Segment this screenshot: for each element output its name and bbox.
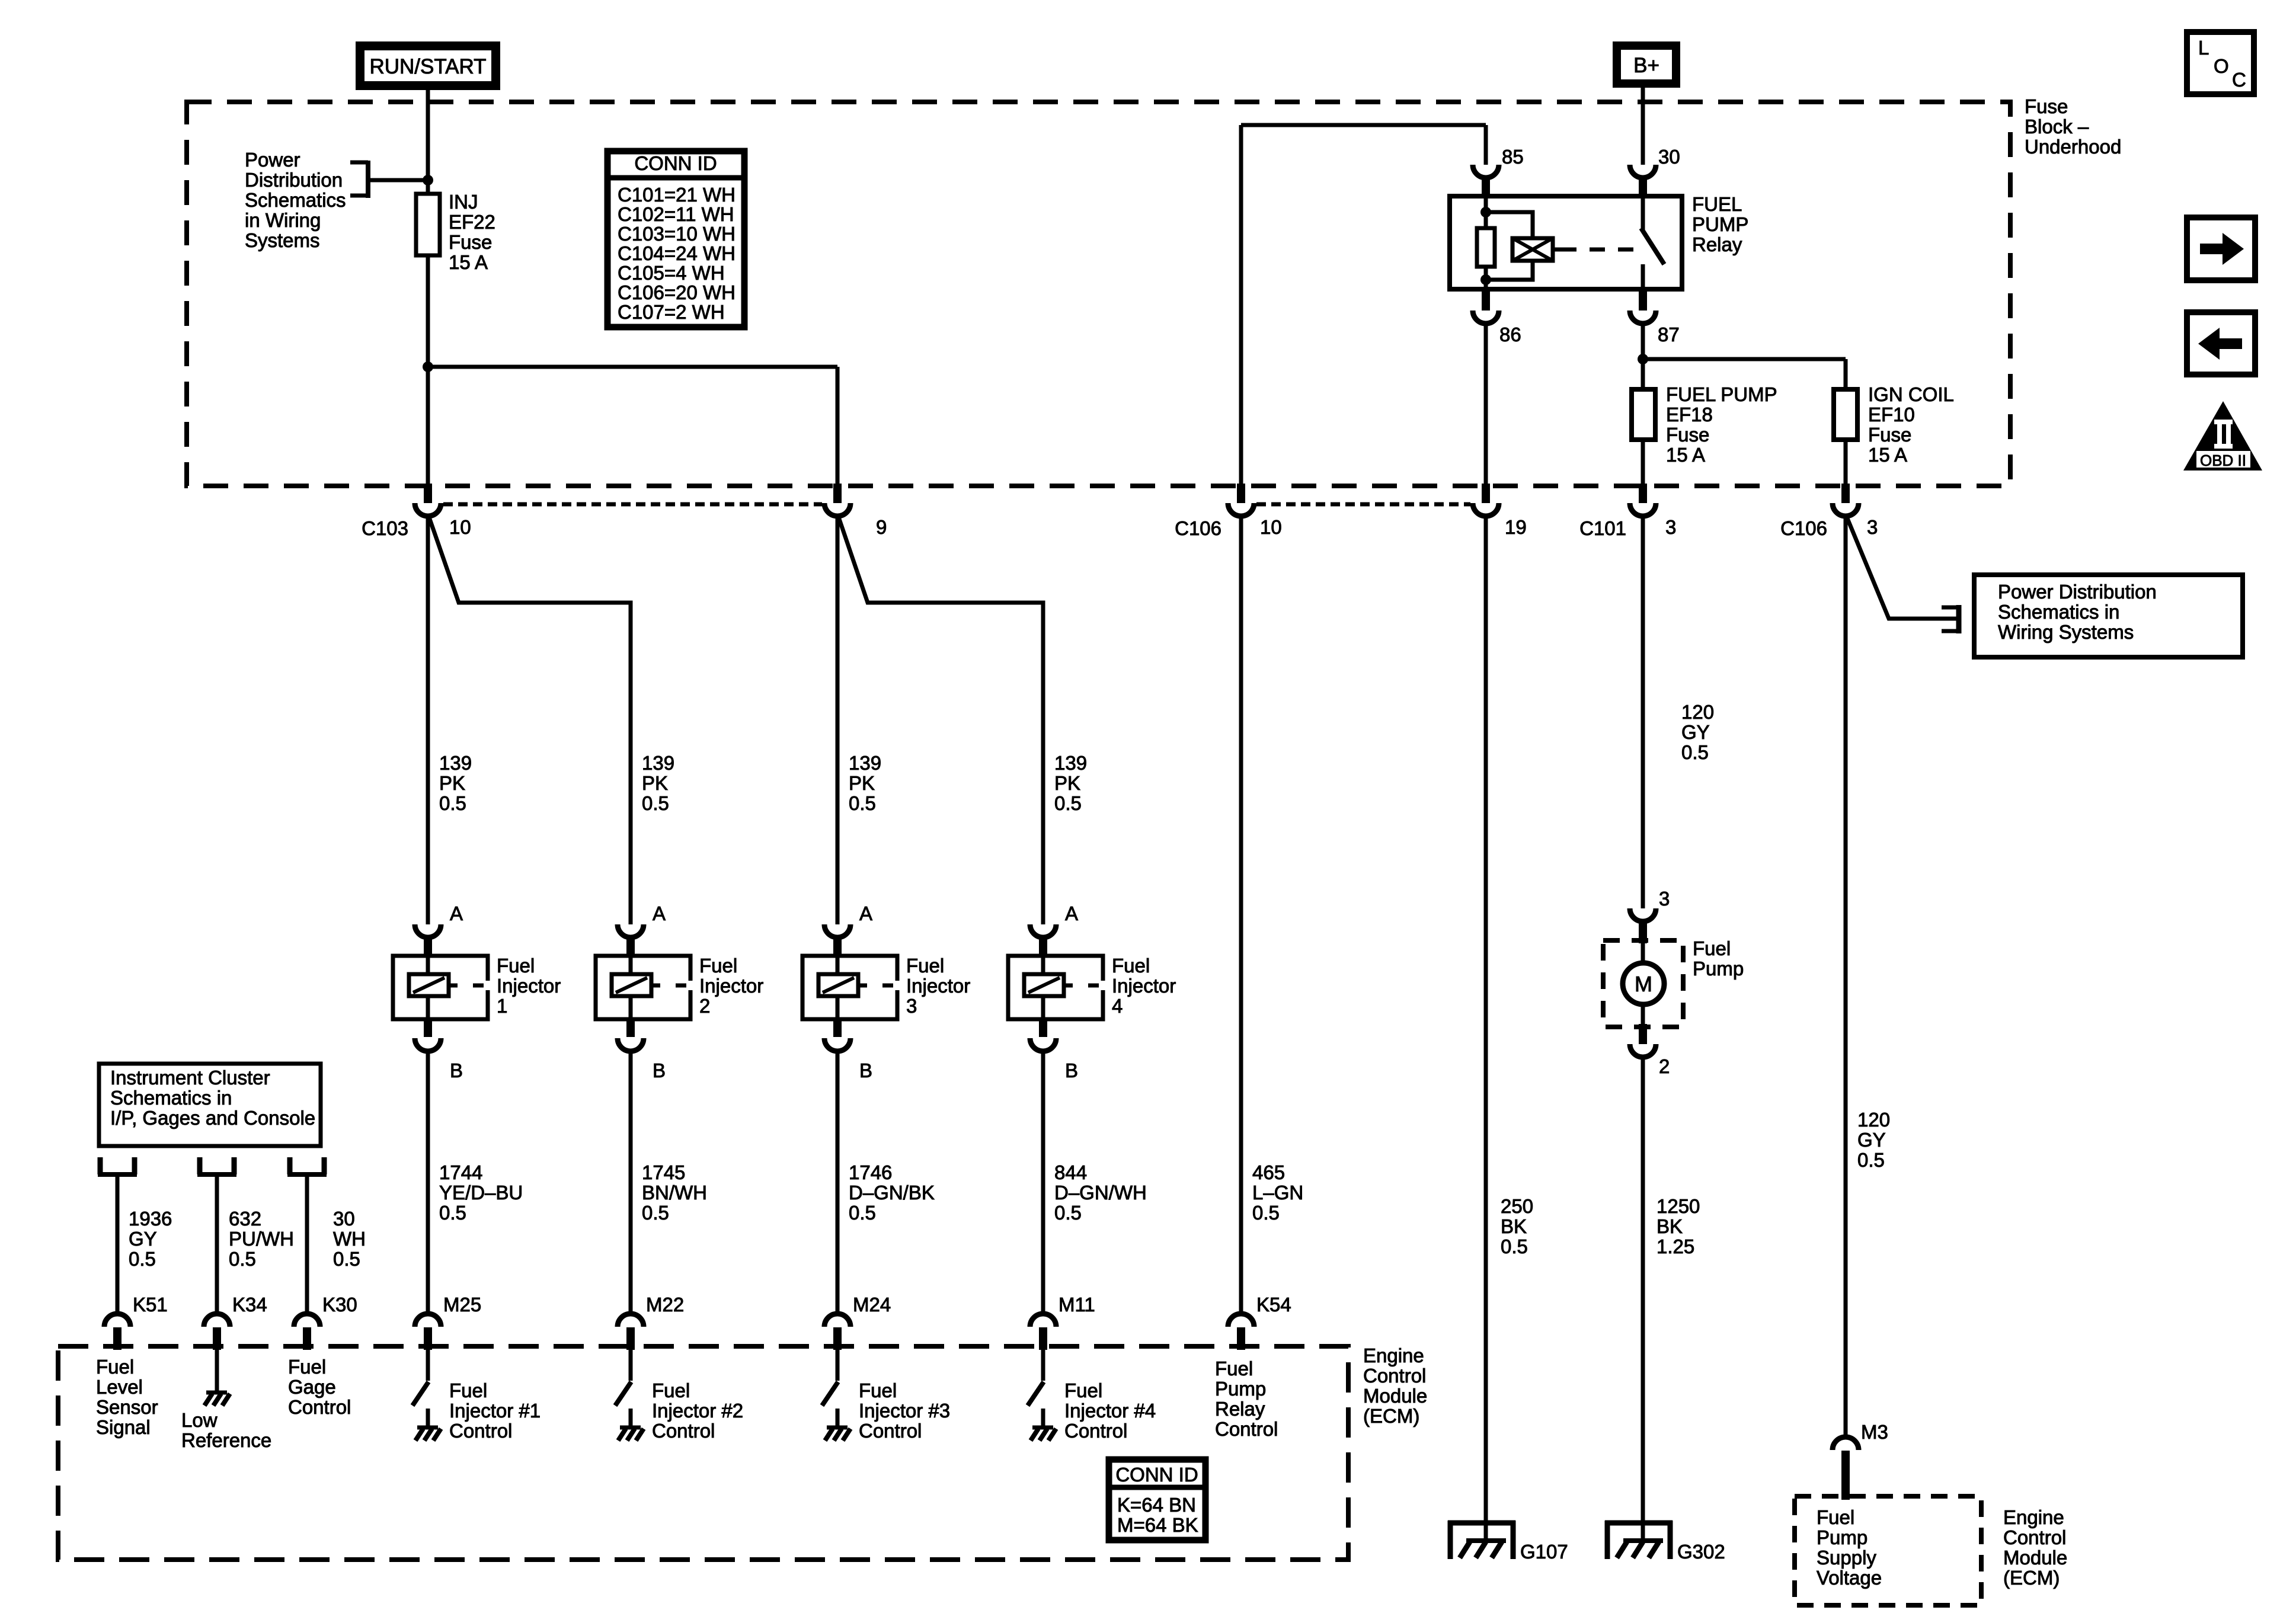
ground G302 bbox=[1605, 1521, 1673, 1526]
fuel injector 4 (solenoid box) bbox=[1008, 956, 1103, 1019]
wire pin 86 to C106-19 bbox=[1484, 323, 1488, 485]
svg-text:BN/WH: BN/WH bbox=[642, 1182, 707, 1204]
instrument cluster output bracket bbox=[197, 1157, 203, 1174]
wire 250 BK to G107 bbox=[1484, 516, 1488, 1538]
connector K34 at ECM bbox=[204, 1314, 230, 1327]
svg-text:BK: BK bbox=[1657, 1215, 1683, 1237]
svg-text:1745: 1745 bbox=[642, 1161, 685, 1183]
svg-text:Injector #2: Injector #2 bbox=[652, 1400, 743, 1422]
svg-text:30: 30 bbox=[333, 1208, 355, 1230]
svg-text:Block –: Block – bbox=[2025, 116, 2089, 137]
svg-text:CONN ID: CONN ID bbox=[634, 152, 717, 174]
svg-text:Control: Control bbox=[859, 1420, 922, 1442]
svg-text:0.5: 0.5 bbox=[1501, 1235, 1528, 1257]
svg-text:0.5: 0.5 bbox=[333, 1248, 360, 1270]
OBD II icon bbox=[2183, 401, 2262, 470]
svg-text:K34: K34 bbox=[232, 1294, 267, 1315]
svg-text:Schematics: Schematics bbox=[245, 189, 346, 211]
wire 139 PK to injector 3 bbox=[836, 516, 840, 924]
svg-text:(ECM): (ECM) bbox=[1363, 1405, 1419, 1427]
connector C103 pin 9 bbox=[833, 484, 842, 503]
svg-text:IGN COIL: IGN COIL bbox=[1868, 383, 1954, 405]
connector K30 at ECM bbox=[294, 1314, 320, 1327]
back arrow icon bbox=[2187, 312, 2255, 375]
relay pin 87 connector bbox=[1639, 289, 1647, 311]
svg-text:Module: Module bbox=[1363, 1385, 1427, 1407]
LOC icon bbox=[2187, 32, 2254, 94]
svg-text:Supply: Supply bbox=[1817, 1547, 1876, 1569]
svg-text:A: A bbox=[1065, 902, 1078, 924]
svg-text:139: 139 bbox=[439, 752, 472, 774]
svg-text:Fuel: Fuel bbox=[859, 1379, 897, 1401]
connector pin A of fuel injector 1 bbox=[415, 924, 441, 937]
wire pin 87 down bbox=[1641, 323, 1645, 485]
box Instrument Cluster Schematics bbox=[99, 1064, 321, 1146]
connector M24 at ECM bbox=[824, 1314, 850, 1327]
svg-text:Injector: Injector bbox=[699, 975, 763, 997]
fuel injector #2 control driver (switch to ground) in ECM bbox=[629, 1350, 633, 1381]
svg-text:10: 10 bbox=[449, 516, 471, 538]
svg-text:B: B bbox=[1065, 1060, 1078, 1081]
wire injector control to ECM bbox=[426, 1051, 430, 1314]
wire branch to injector 4 bbox=[838, 516, 1043, 924]
svg-text:PUMP: PUMP bbox=[1692, 213, 1748, 235]
forward arrow icon bbox=[2187, 217, 2255, 280]
svg-text:Schematics in: Schematics in bbox=[1998, 601, 2119, 623]
svg-text:YE/D–BU: YE/D–BU bbox=[439, 1182, 523, 1204]
relay coil (box with X) bbox=[1486, 212, 1533, 238]
svg-text:M22: M22 bbox=[646, 1294, 684, 1315]
svg-text:M24: M24 bbox=[853, 1294, 891, 1315]
power tag B+ bbox=[1613, 41, 1680, 88]
wire 465 L-GN relay control bbox=[1239, 516, 1243, 1314]
wire branch to injector 2 bbox=[428, 516, 631, 924]
svg-text:Fuel: Fuel bbox=[1215, 1358, 1253, 1379]
svg-text:0.5: 0.5 bbox=[849, 792, 876, 814]
svg-text:465: 465 bbox=[1252, 1161, 1285, 1183]
svg-text:Pump: Pump bbox=[1215, 1378, 1266, 1400]
fuel pump pin 2 connector bbox=[1639, 1024, 1647, 1044]
svg-text:Signal: Signal bbox=[96, 1416, 151, 1438]
svg-text:Fuel: Fuel bbox=[288, 1356, 326, 1378]
svg-text:15 A: 15 A bbox=[449, 251, 488, 273]
svg-text:3: 3 bbox=[1867, 516, 1878, 538]
connector C106 pin 3 bbox=[1841, 484, 1850, 503]
svg-text:1.25: 1.25 bbox=[1657, 1235, 1694, 1257]
svg-text:Control: Control bbox=[2003, 1526, 2066, 1548]
connector C106 pin 10 bbox=[1237, 484, 1245, 503]
svg-text:3: 3 bbox=[1659, 888, 1670, 910]
svg-text:Engine: Engine bbox=[1363, 1345, 1424, 1366]
svg-text:in Wiring: in Wiring bbox=[245, 209, 321, 231]
svg-text:Voltage: Voltage bbox=[1817, 1567, 1882, 1589]
svg-text:PK: PK bbox=[1054, 772, 1080, 794]
svg-text:Injector: Injector bbox=[1112, 975, 1176, 997]
svg-text:3: 3 bbox=[906, 995, 917, 1017]
svg-text:Fuel: Fuel bbox=[1817, 1506, 1854, 1528]
svg-text:0.5: 0.5 bbox=[1054, 792, 1082, 814]
svg-text:C107=2 WH: C107=2 WH bbox=[618, 301, 725, 323]
svg-text:B+: B+ bbox=[1633, 54, 1659, 77]
connector pin A of fuel injector 2 bbox=[618, 924, 644, 937]
svg-text:K54: K54 bbox=[1256, 1294, 1291, 1315]
svg-text:Fuse: Fuse bbox=[449, 231, 492, 253]
svg-text:C: C bbox=[2232, 69, 2246, 91]
dotted tie C106 10-19 bbox=[1256, 502, 1470, 507]
CONN ID table (ECM) bbox=[1109, 1459, 1205, 1540]
wire tap to bracket bbox=[370, 178, 428, 183]
svg-text:GY: GY bbox=[1681, 721, 1710, 743]
svg-text:C101: C101 bbox=[1579, 517, 1626, 539]
svg-text:Gage: Gage bbox=[288, 1376, 336, 1398]
connector pin A of fuel injector 4 bbox=[1030, 924, 1056, 937]
connector pin B of fuel injector 1 bbox=[424, 1019, 432, 1037]
svg-text:139: 139 bbox=[1054, 752, 1087, 774]
connector K51 at ECM bbox=[104, 1314, 130, 1327]
svg-text:G302: G302 bbox=[1677, 1541, 1725, 1563]
svg-text:L: L bbox=[2198, 37, 2209, 59]
svg-text:15 A: 15 A bbox=[1666, 444, 1705, 466]
relay pin 30 connector bbox=[1630, 165, 1656, 178]
svg-text:0.5: 0.5 bbox=[1857, 1149, 1885, 1171]
ECM fuel pump supply voltage (dashed box) bbox=[1795, 1496, 1981, 1605]
connector M25 at ECM bbox=[415, 1314, 441, 1327]
connector pin B of fuel injector 2 bbox=[626, 1019, 635, 1037]
svg-text:Relay: Relay bbox=[1692, 233, 1742, 255]
svg-text:1: 1 bbox=[497, 995, 507, 1017]
svg-text:Schematics in: Schematics in bbox=[110, 1087, 232, 1109]
fuel injector 3 (solenoid box) bbox=[802, 956, 897, 1019]
wire injector control to ECM bbox=[1041, 1051, 1045, 1314]
wire branch to EF10 bbox=[1643, 357, 1846, 361]
svg-text:Fuel: Fuel bbox=[1112, 955, 1150, 977]
svg-text:RUN/START: RUN/START bbox=[369, 55, 486, 78]
wire 120 GY C101-3 to fuel pump bbox=[1641, 516, 1645, 908]
svg-text:C101=21 WH: C101=21 WH bbox=[618, 184, 736, 206]
fuse FUEL PUMP EF18 15A bbox=[1632, 389, 1655, 440]
svg-text:2: 2 bbox=[699, 995, 710, 1017]
svg-text:Pump: Pump bbox=[1817, 1526, 1868, 1548]
svg-text:O: O bbox=[2214, 55, 2229, 77]
wire from instrument cluster bbox=[215, 1177, 219, 1314]
node: branch to IGN COIL fuse bbox=[1638, 354, 1648, 364]
fuse IGN COIL EF10 15A bbox=[1834, 389, 1857, 440]
svg-text:Power Distribution: Power Distribution bbox=[1998, 581, 2157, 603]
svg-text:K51: K51 bbox=[133, 1294, 168, 1315]
wire RUN/START feed bbox=[426, 90, 430, 196]
svg-text:FUEL: FUEL bbox=[1692, 193, 1742, 215]
svg-text:Fuel: Fuel bbox=[906, 955, 944, 977]
ECM low reference (ground) bbox=[215, 1350, 219, 1393]
svg-text:Injector #3: Injector #3 bbox=[859, 1400, 950, 1422]
svg-text:C106: C106 bbox=[1780, 517, 1827, 539]
fuel pump pin 3 connector bbox=[1630, 908, 1656, 921]
svg-text:M11: M11 bbox=[1059, 1294, 1095, 1315]
svg-text:1250: 1250 bbox=[1657, 1195, 1700, 1217]
svg-text:BK: BK bbox=[1501, 1215, 1527, 1237]
svg-text:15 A: 15 A bbox=[1868, 444, 1907, 466]
svg-text:M=64 BK: M=64 BK bbox=[1117, 1514, 1198, 1536]
svg-text:85: 85 bbox=[1502, 146, 1524, 168]
svg-text:Low: Low bbox=[181, 1409, 218, 1431]
svg-text:9: 9 bbox=[876, 516, 887, 538]
svg-text:Reference: Reference bbox=[181, 1429, 271, 1451]
svg-text:Fuel: Fuel bbox=[497, 955, 535, 977]
svg-text:0.5: 0.5 bbox=[439, 792, 466, 814]
power tag RUN/START bbox=[356, 41, 500, 90]
fuse INJ EF22 15A bbox=[426, 196, 430, 257]
svg-text:PK: PK bbox=[642, 772, 668, 794]
svg-text:Fuel: Fuel bbox=[1693, 937, 1731, 959]
bracket to Power Distribution Schematics bbox=[350, 161, 368, 165]
svg-text:844: 844 bbox=[1054, 1161, 1087, 1183]
svg-text:G107: G107 bbox=[1520, 1541, 1568, 1563]
fuel pump M1 (motor, dashed box) bbox=[1603, 940, 1683, 1027]
svg-text:139: 139 bbox=[642, 752, 674, 774]
box Power Distribution Schematics in Wiring Systems bbox=[1974, 575, 2243, 657]
svg-text:2: 2 bbox=[1659, 1055, 1670, 1077]
svg-text:GY: GY bbox=[1857, 1129, 1886, 1151]
relay pin 86 connector bbox=[1482, 289, 1490, 311]
wire 120 GY C106-3 to ECM M3 bbox=[1844, 516, 1848, 1438]
svg-text:GY: GY bbox=[129, 1228, 157, 1250]
svg-text:Engine: Engine bbox=[2003, 1506, 2064, 1528]
svg-text:Control: Control bbox=[652, 1420, 715, 1442]
node: branch to injectors 3/4 feed bbox=[423, 361, 433, 372]
svg-text:C106=20 WH: C106=20 WH bbox=[618, 281, 736, 303]
fuel injector #3 control driver (switch to ground) in ECM bbox=[836, 1350, 840, 1381]
svg-text:CONN ID: CONN ID bbox=[1115, 1464, 1198, 1486]
svg-text:Instrument Cluster: Instrument Cluster bbox=[110, 1067, 270, 1089]
svg-text:Level: Level bbox=[96, 1376, 143, 1398]
svg-text:Systems: Systems bbox=[245, 229, 320, 251]
svg-text:0.5: 0.5 bbox=[439, 1202, 466, 1224]
svg-text:EF10: EF10 bbox=[1868, 404, 1915, 425]
fuel injector #4 control driver (switch to ground) in ECM bbox=[1041, 1350, 1045, 1381]
svg-text:Underhood: Underhood bbox=[2025, 136, 2121, 158]
svg-text:C104=24 WH: C104=24 WH bbox=[618, 242, 736, 264]
svg-text:Fuel: Fuel bbox=[699, 955, 737, 977]
branch to Power Distribution bracket bbox=[1846, 516, 1957, 619]
svg-text:A: A bbox=[450, 902, 463, 924]
svg-text:D–GN/WH: D–GN/WH bbox=[1054, 1182, 1147, 1204]
svg-text:Control: Control bbox=[1064, 1420, 1127, 1442]
svg-text:19: 19 bbox=[1505, 516, 1527, 538]
svg-text:1746: 1746 bbox=[849, 1161, 892, 1183]
svg-text:0.5: 0.5 bbox=[1681, 741, 1709, 763]
svg-text:A: A bbox=[653, 902, 666, 924]
connector pin A of fuel injector 3 bbox=[824, 924, 850, 937]
svg-text:EF22: EF22 bbox=[449, 211, 495, 233]
relay pin 85 connector bbox=[1473, 165, 1499, 178]
svg-text:C105=4 WH: C105=4 WH bbox=[618, 262, 725, 284]
svg-text:0.5: 0.5 bbox=[642, 792, 669, 814]
connector M11 at ECM bbox=[1030, 1314, 1056, 1327]
svg-text:Fuse: Fuse bbox=[2025, 95, 2068, 117]
connector K54 at ECM bbox=[1228, 1314, 1254, 1327]
engine control module ECM (dashed box) bbox=[58, 1346, 1348, 1560]
connector C101 pin 3 bbox=[1639, 484, 1647, 503]
svg-text:120: 120 bbox=[1857, 1109, 1890, 1131]
svg-text:D–GN/BK: D–GN/BK bbox=[849, 1182, 935, 1204]
svg-text:Fuel: Fuel bbox=[449, 1379, 487, 1401]
svg-text:Control: Control bbox=[1363, 1365, 1426, 1387]
svg-text:Pump: Pump bbox=[1693, 958, 1744, 980]
svg-text:0.5: 0.5 bbox=[1054, 1202, 1082, 1224]
svg-text:M: M bbox=[1635, 972, 1652, 996]
svg-text:PK: PK bbox=[439, 772, 465, 794]
svg-text:86: 86 bbox=[1499, 324, 1521, 345]
svg-text:0.5: 0.5 bbox=[1252, 1202, 1280, 1224]
svg-text:INJ: INJ bbox=[449, 191, 478, 213]
connector pin B of fuel injector 3 bbox=[833, 1019, 842, 1037]
wire fuel pump relay control (pin 85 to C106-10) bbox=[1241, 123, 1486, 127]
svg-text:K=64 BN: K=64 BN bbox=[1117, 1494, 1196, 1516]
svg-text:Module: Module bbox=[2003, 1547, 2067, 1569]
svg-text:Distribution: Distribution bbox=[245, 169, 343, 191]
node: power distribution tap bbox=[423, 175, 433, 185]
svg-text:C106: C106 bbox=[1175, 517, 1221, 539]
svg-text:4: 4 bbox=[1112, 995, 1123, 1017]
svg-text:C102=11 WH: C102=11 WH bbox=[618, 203, 734, 225]
svg-text:139: 139 bbox=[849, 752, 881, 774]
svg-text:EF18: EF18 bbox=[1666, 404, 1713, 425]
svg-text:Fuel: Fuel bbox=[1064, 1379, 1102, 1401]
svg-text:10: 10 bbox=[1260, 516, 1282, 538]
svg-text:(ECM): (ECM) bbox=[2003, 1567, 2060, 1589]
svg-text:Injector: Injector bbox=[497, 975, 561, 997]
wire from instrument cluster bbox=[116, 1177, 120, 1314]
svg-text:WH: WH bbox=[333, 1228, 366, 1250]
svg-text:Fuse: Fuse bbox=[1868, 424, 1911, 446]
svg-text:Relay: Relay bbox=[1215, 1398, 1265, 1420]
svg-text:0.5: 0.5 bbox=[642, 1202, 669, 1224]
svg-text:M3: M3 bbox=[1861, 1421, 1888, 1443]
CONN ID table (connector identification) bbox=[607, 151, 744, 327]
svg-text:120: 120 bbox=[1681, 701, 1714, 723]
svg-text:PU/WH: PU/WH bbox=[229, 1228, 294, 1250]
svg-text:B: B bbox=[859, 1060, 872, 1081]
svg-text:Injector #4: Injector #4 bbox=[1064, 1400, 1156, 1422]
wire 1250 BK to G302 bbox=[1641, 1057, 1645, 1538]
wire branch to connector 9 bbox=[428, 365, 837, 369]
instrument cluster output bracket bbox=[98, 1157, 103, 1174]
relay resistor (parallel with coil) bbox=[1477, 228, 1495, 267]
svg-text:Fuel: Fuel bbox=[96, 1356, 134, 1378]
wire 139 PK to injector 1 bbox=[426, 516, 430, 924]
svg-text:Control: Control bbox=[288, 1396, 351, 1418]
bracket to Power Distribution box bbox=[1942, 606, 1958, 610]
connector C103 pin 10 bbox=[424, 484, 432, 503]
fuel injector 2 (solenoid box) bbox=[596, 956, 690, 1019]
wire injector control to ECM bbox=[629, 1051, 633, 1314]
connector M3 bbox=[1833, 1437, 1859, 1450]
svg-text:0.5: 0.5 bbox=[849, 1202, 876, 1224]
svg-text:1936: 1936 bbox=[129, 1208, 172, 1230]
fuse block - underhood (dashed box) bbox=[187, 102, 2010, 486]
svg-text:Injector #1: Injector #1 bbox=[449, 1400, 541, 1422]
svg-text:C103=10 WH: C103=10 WH bbox=[618, 223, 736, 245]
svg-text:87: 87 bbox=[1658, 324, 1680, 345]
svg-text:I/P, Gages and Console: I/P, Gages and Console bbox=[110, 1107, 315, 1129]
svg-text:Fuel: Fuel bbox=[652, 1379, 690, 1401]
svg-text:B: B bbox=[653, 1060, 666, 1081]
svg-text:Power: Power bbox=[245, 149, 300, 171]
svg-text:0.5: 0.5 bbox=[129, 1248, 156, 1270]
relay actuation dashed link bbox=[1561, 248, 1639, 252]
relay coil branch wiring bbox=[1484, 196, 1488, 289]
svg-text:Control: Control bbox=[449, 1420, 512, 1442]
svg-text:M25: M25 bbox=[443, 1294, 481, 1315]
wire from instrument cluster bbox=[305, 1177, 309, 1314]
svg-text:30: 30 bbox=[1658, 146, 1680, 168]
wire from fuse to C103 connectors bbox=[426, 255, 430, 485]
instrument cluster output bracket bbox=[287, 1157, 293, 1174]
wire B+ to relay pin 30 bbox=[1641, 88, 1645, 165]
svg-text:FUEL PUMP: FUEL PUMP bbox=[1666, 383, 1777, 405]
fuel injector 1 (solenoid box) bbox=[393, 956, 488, 1019]
connector pin B of fuel injector 4 bbox=[1039, 1019, 1047, 1037]
svg-text:Control: Control bbox=[1215, 1418, 1278, 1440]
fuel injector #1 control driver (switch to ground) in ECM bbox=[426, 1350, 430, 1381]
relay switch (pins 30-87) bbox=[1641, 196, 1645, 230]
svg-text:Wiring Systems: Wiring Systems bbox=[1998, 621, 2134, 643]
svg-text:0.5: 0.5 bbox=[229, 1248, 256, 1270]
svg-text:L–GN: L–GN bbox=[1252, 1182, 1303, 1204]
svg-text:Injector: Injector bbox=[906, 975, 970, 997]
dotted tie C103 10-9 bbox=[443, 502, 822, 507]
svg-text:3: 3 bbox=[1665, 516, 1676, 538]
svg-text:K30: K30 bbox=[322, 1294, 357, 1315]
svg-text:1744: 1744 bbox=[439, 1161, 482, 1183]
svg-text:Sensor: Sensor bbox=[96, 1396, 158, 1418]
svg-text:PK: PK bbox=[849, 772, 875, 794]
svg-text:250: 250 bbox=[1501, 1195, 1533, 1217]
connector C106 pin 19 bbox=[1482, 484, 1490, 503]
wire injector control to ECM bbox=[836, 1051, 840, 1314]
ground G107 bbox=[1448, 1521, 1515, 1526]
svg-text:632: 632 bbox=[229, 1208, 261, 1230]
svg-text:A: A bbox=[859, 902, 872, 924]
svg-text:Fuse: Fuse bbox=[1666, 424, 1709, 446]
connector M22 at ECM bbox=[618, 1314, 644, 1327]
fuel pump relay U: box bbox=[1450, 196, 1682, 289]
svg-text:OBD II: OBD II bbox=[2200, 452, 2246, 469]
svg-text:B: B bbox=[450, 1060, 463, 1081]
svg-text:C103: C103 bbox=[362, 517, 408, 539]
